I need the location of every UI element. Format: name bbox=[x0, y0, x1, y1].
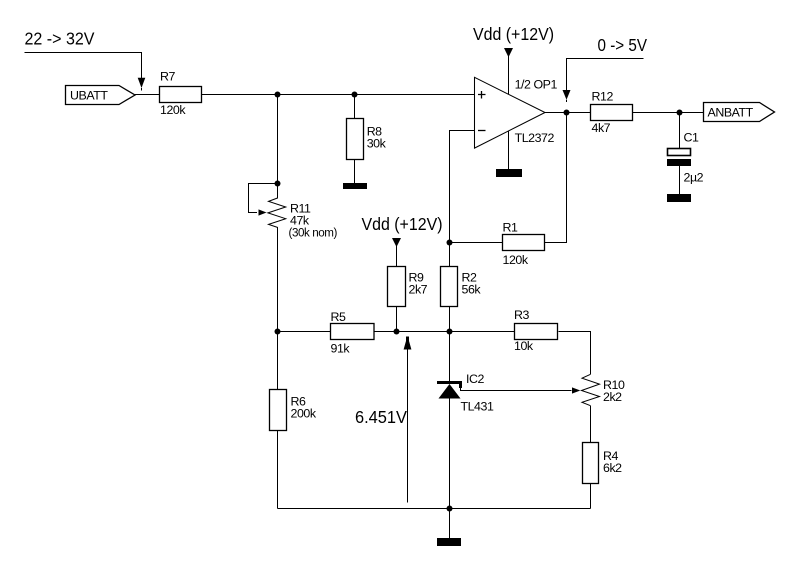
arrowhead wiper pointing right into R10 bbox=[572, 387, 580, 393]
svg-text:UBATT: UBATT bbox=[70, 89, 108, 103]
svg-text:R3: R3 bbox=[514, 308, 529, 322]
svg-text:2k7: 2k7 bbox=[409, 282, 428, 296]
junction node R11 top bbox=[275, 181, 281, 187]
svg-text:R12: R12 bbox=[592, 89, 614, 103]
svg-text:120k: 120k bbox=[160, 103, 186, 117]
output tag ANBATT bbox=[704, 103, 775, 122]
middle rail wire left of R5 bbox=[278, 331, 331, 333]
junction node at R8 branch bbox=[352, 92, 358, 98]
svg-text:R5: R5 bbox=[331, 310, 346, 324]
ground below R8 bbox=[343, 183, 367, 189]
junction node rail / R2 / TL431 bbox=[447, 329, 453, 335]
junction node at R11 branch bbox=[275, 92, 281, 98]
input tag UBATT bbox=[66, 86, 136, 105]
potentiometer R11 47k (30k nom) bbox=[249, 184, 338, 332]
resistor R12 bbox=[591, 89, 633, 135]
resistor R9 bbox=[388, 267, 428, 332]
wire TL431 reference to R10 wiper bbox=[461, 388, 572, 391]
svg-text:4k7: 4k7 bbox=[592, 121, 611, 135]
junction node rail / R9 bbox=[394, 329, 400, 335]
arrowhead pointing down at output node bbox=[563, 90, 571, 100]
svg-text:ANBATT: ANBATT bbox=[708, 106, 754, 120]
svg-text:10k: 10k bbox=[514, 339, 534, 353]
leader line from 0->5V label bbox=[567, 59, 644, 91]
resistor R5 bbox=[331, 310, 375, 355]
wire op-amp bottom to ground bbox=[508, 131, 510, 170]
wire output node down to R1 bbox=[545, 113, 567, 243]
junction node inverting input / R1 bbox=[447, 240, 453, 246]
wire junction to ground bbox=[449, 509, 451, 539]
resistor R6 bbox=[270, 390, 317, 509]
resistor R3 bbox=[514, 308, 558, 353]
svg-text:22 -> 32V: 22 -> 32V bbox=[25, 29, 95, 49]
junction node at output bbox=[564, 110, 570, 116]
arrowhead Vdd supply into R9 bbox=[392, 238, 401, 247]
svg-text:6k2: 6k2 bbox=[603, 461, 622, 475]
arrowhead pointing up at mid rail bbox=[404, 337, 412, 350]
capacitor C1 2u2 bbox=[667, 113, 704, 195]
ground below C1 bbox=[667, 194, 691, 202]
svg-text:200k: 200k bbox=[291, 406, 317, 420]
wire rail down to R6 bbox=[277, 332, 279, 390]
svg-text:56k: 56k bbox=[462, 282, 482, 296]
svg-text:6.451V: 6.451V bbox=[355, 407, 407, 427]
resistor R4 bbox=[583, 406, 623, 509]
wire UBATT tip to R7 bbox=[135, 94, 160, 96]
resistor R1 bbox=[450, 220, 545, 267]
ground at bottom bbox=[437, 538, 461, 546]
bottom rail wire bbox=[278, 508, 591, 510]
svg-text:TL431: TL431 bbox=[461, 400, 494, 414]
leader line 6.451V measurement bbox=[407, 348, 409, 503]
svg-text:30k: 30k bbox=[367, 137, 387, 151]
svg-text:R1: R1 bbox=[503, 220, 518, 234]
svg-text:(30k nom): (30k nom) bbox=[289, 226, 338, 240]
junction node bottom rail / ground bbox=[447, 506, 453, 512]
resistor R2 bbox=[441, 267, 482, 332]
arrowhead pointing down at UBATT node bbox=[138, 78, 146, 88]
junction node rail / R6 bbox=[275, 329, 281, 335]
svg-text:120k: 120k bbox=[503, 253, 529, 267]
wire op-amp output to R12 bbox=[545, 112, 591, 114]
wire R3 to R10 top bbox=[559, 332, 591, 375]
svg-text:0 -> 5V: 0 -> 5V bbox=[598, 35, 648, 55]
junction node at C1 bbox=[677, 110, 683, 116]
wire R7 to op-amp + input bbox=[202, 94, 475, 96]
ground below op-amp bbox=[496, 169, 522, 177]
middle rail wire R5 to R3 bbox=[374, 331, 515, 333]
svg-text:TL2372: TL2372 bbox=[515, 131, 555, 145]
op-amp U1 1/2 OP1 TL2372 bbox=[475, 77, 558, 148]
svg-text:Vdd (+12V): Vdd (+12V) bbox=[473, 24, 554, 44]
svg-text:2µ2: 2µ2 bbox=[684, 170, 704, 184]
svg-text:1/2 OP1: 1/2 OP1 bbox=[515, 77, 558, 91]
shunt regulator IC2 TL431 bbox=[437, 332, 494, 509]
resistor R8 bbox=[347, 95, 387, 184]
wire op-amp inverting input down to R2 bbox=[450, 131, 475, 267]
svg-text:IC2: IC2 bbox=[466, 372, 484, 386]
svg-text:R7: R7 bbox=[160, 69, 175, 83]
wire Vdd arrow to R9 bbox=[396, 246, 398, 267]
potentiometer R10 bbox=[582, 374, 625, 405]
wire Vdd arrow to op-amp top edge bbox=[508, 56, 510, 94]
wire R12 to ANBATT bbox=[633, 112, 704, 114]
svg-text:91k: 91k bbox=[331, 341, 351, 355]
resistor R7 bbox=[160, 69, 202, 117]
arrowhead Vdd supply into op-amp bbox=[504, 48, 513, 57]
svg-text:Vdd (+12V): Vdd (+12V) bbox=[362, 214, 443, 234]
svg-text:2k2: 2k2 bbox=[603, 390, 622, 404]
wire down to R11 junction bbox=[277, 95, 279, 184]
leader line from 22->32V label bbox=[25, 53, 142, 80]
svg-text:C1: C1 bbox=[684, 131, 699, 145]
